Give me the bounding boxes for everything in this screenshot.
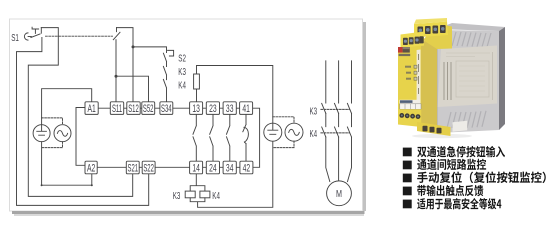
front terminal screws (404, 38, 419, 42)
terminal 14 (190, 161, 203, 174)
wire 14 to contactor coils (190, 174, 205, 191)
svg-text:23: 23 (209, 102, 217, 114)
terminal 24 (206, 161, 219, 174)
product yellow side sliver (421, 30, 437, 133)
svg-text:K3: K3 (178, 65, 186, 77)
contactor coil K4 (200, 191, 210, 198)
three phase line L2 (338, 61, 340, 181)
DC supply G1 circle (33, 125, 50, 142)
wire 41 to 42 loop (253, 108, 260, 167)
dashed link K4 contacts (321, 132, 350, 134)
product bottom vents (447, 111, 486, 128)
bullet square 3 (403, 174, 412, 183)
AC supply G4 sine symbol (289, 129, 300, 135)
contactor coil K3 (185, 191, 195, 198)
front face brand logo dark (403, 47, 410, 53)
corner node dots (41, 184, 43, 186)
svg-text:24: 24 (209, 162, 217, 174)
top terminal rail (98, 107, 240, 109)
front face lower label strip (400, 100, 421, 104)
product yellow top wedge (423, 24, 452, 49)
svg-text:A2: A2 (87, 162, 95, 174)
front terminal block (401, 32, 425, 49)
bullet square 2 (403, 161, 412, 170)
DC supply G3 symbol (268, 123, 278, 134)
wire junction to S52 (116, 76, 149, 102)
AC supply G2 sine symbol (57, 131, 67, 137)
front face LED labels (405, 66, 411, 80)
wire junction to S2 chain (133, 47, 167, 53)
terminal S21 (126, 161, 139, 174)
product DIN rail dark edge (499, 27, 505, 130)
output contact 23-24 (210, 114, 213, 161)
contactor K4 contacts on phases (322, 127, 352, 137)
bottom angled terminal holes (423, 126, 442, 134)
terminal A1 (85, 102, 98, 115)
node junction on S12 wire (132, 45, 135, 48)
DC supply G3 circle right (264, 123, 282, 141)
contact K3 in reset chain (163, 66, 166, 79)
reset button S2 contact (163, 53, 166, 66)
bullet text: 通道间短路监控 (417, 159, 486, 170)
wire A1 top to DC supply (42, 89, 92, 125)
terminal 13 (190, 102, 203, 115)
bullet square 4 (403, 187, 412, 196)
svg-text:41: 41 (242, 102, 250, 114)
terminal S11 (110, 102, 123, 115)
svg-text:A1: A1 (87, 102, 95, 114)
mechanical link dashed S1 (46, 35, 113, 37)
svg-text:S34: S34 (161, 102, 172, 114)
bottom terminal screws (399, 113, 420, 119)
svg-text:33: 33 (226, 102, 234, 114)
wire from S1 contact2 top to S12 (117, 28, 134, 102)
back terminal screws (419, 27, 445, 32)
svg-text:14: 14 (192, 162, 200, 174)
output contact 33-34 (227, 114, 230, 161)
wire from S1 contact1 top to right elbow (28, 28, 132, 197)
AC supply G4 circle (285, 123, 303, 141)
terminal 23 (206, 102, 219, 115)
back terminal roof (414, 18, 447, 24)
front face brand logo red (398, 47, 403, 53)
svg-text:13: 13 (192, 102, 200, 114)
bottom angled terminal row (417, 122, 451, 136)
S1 contact 2 fixed terminal (116, 28, 118, 32)
front face LED windows (414, 65, 417, 80)
bullet text: 双通道急停按钮输入 (417, 146, 505, 157)
terminal 34 (223, 161, 236, 174)
svg-text:S1: S1 (11, 31, 19, 43)
svg-text:S22: S22 (143, 161, 154, 173)
product top vents (447, 32, 491, 47)
svg-text:K4: K4 (212, 189, 220, 201)
front terminal holes (403, 36, 424, 45)
schematic panel background (10, 19, 367, 216)
three phase line L3 (348, 61, 352, 182)
dashed link to AC supply G4 (273, 117, 294, 123)
S1 contact 1 fixed terminal (40, 28, 42, 34)
product side label (438, 46, 498, 108)
S1 actuator plunger (32, 27, 39, 33)
svg-text:34: 34 (226, 162, 234, 174)
terminal 33 (223, 102, 236, 115)
dashed link to AC supply G2 (42, 118, 63, 125)
emergency stop button S1 mushroom head (24, 33, 28, 40)
bottom yellow terminal block (398, 109, 421, 127)
product label print (444, 52, 493, 100)
white tag on gray body (453, 121, 468, 132)
dashed link AC supply bottom (42, 142, 63, 148)
front face white edge strip (417, 50, 421, 101)
svg-text:S2: S2 (178, 52, 186, 64)
product yellow front face (398, 46, 421, 111)
terminal 41 (240, 102, 253, 115)
back terminal holes (418, 25, 446, 35)
svg-text:K3: K3 (173, 189, 181, 201)
svg-text:S52: S52 (143, 102, 154, 114)
DC supply G1 symbol (37, 125, 47, 136)
front face model text (399, 54, 411, 56)
product gray top surface (437, 23, 505, 31)
safety relay product photo (398, 18, 505, 138)
svg-text:K3: K3 (310, 105, 318, 117)
S1 contact 2 moving arm (113, 32, 120, 39)
motor M1 circle (327, 181, 352, 206)
terminal S52 (142, 102, 155, 115)
front face edge strip marks (418, 54, 420, 94)
terminal number strip (400, 104, 421, 110)
dashed link AC G4 bottom (273, 141, 294, 147)
svg-text:M: M (336, 188, 342, 199)
reset button S2 actuator (168, 50, 174, 56)
wire coils return to supply (190, 141, 273, 207)
bottom terminal rail (97, 166, 240, 168)
contact K4 in reset chain (163, 79, 166, 101)
product ground shadow (412, 134, 472, 138)
terminal S34 (160, 102, 173, 115)
svg-text:42: 42 (243, 162, 251, 174)
bullet text: 适用于最高安全等级4 (417, 198, 501, 209)
node junction on S11 wire (115, 75, 118, 78)
output contact 13-14 (193, 114, 196, 161)
product yellow back terminal block (414, 22, 448, 38)
terminal A2 (85, 161, 97, 174)
AC supply G2 circle (54, 125, 71, 142)
svg-text:K4: K4 (178, 79, 186, 91)
three phase line L1 (326, 61, 330, 182)
contactor K3 contacts on phases (322, 103, 352, 113)
svg-text:K4: K4 (310, 127, 318, 139)
housing separation line (436, 30, 438, 132)
fuse F1 (194, 74, 200, 89)
bullet square 1 (403, 148, 412, 157)
wire feedback bus to supply (197, 66, 273, 124)
feedback contact 41-42 (243, 114, 249, 161)
wire DC supply to A2 bottom (42, 142, 92, 186)
S1 contact 1 moving arm (31, 34, 40, 38)
S1 actuator link (28, 36, 31, 38)
svg-text:S12: S12 (128, 102, 139, 114)
terminal S22 (142, 161, 155, 174)
bullet text: 手动复位（复位按钮监控） (417, 171, 546, 183)
bullet square 5 (403, 200, 412, 209)
wire from S1 contact1 bottom to left rail (17, 38, 149, 206)
terminal S12 (127, 102, 140, 115)
wire from S1 contact2 bottom to S11 (115, 40, 117, 102)
bullet text: 带输出触点反馈 (417, 185, 483, 197)
dashed link K3 contacts (321, 108, 350, 110)
product gray housing body (437, 30, 499, 133)
terminal 42 (240, 161, 253, 174)
wire A1 left to A2 left (76, 108, 85, 166)
svg-text:S21: S21 (128, 161, 139, 173)
svg-text:S11: S11 (112, 102, 122, 114)
